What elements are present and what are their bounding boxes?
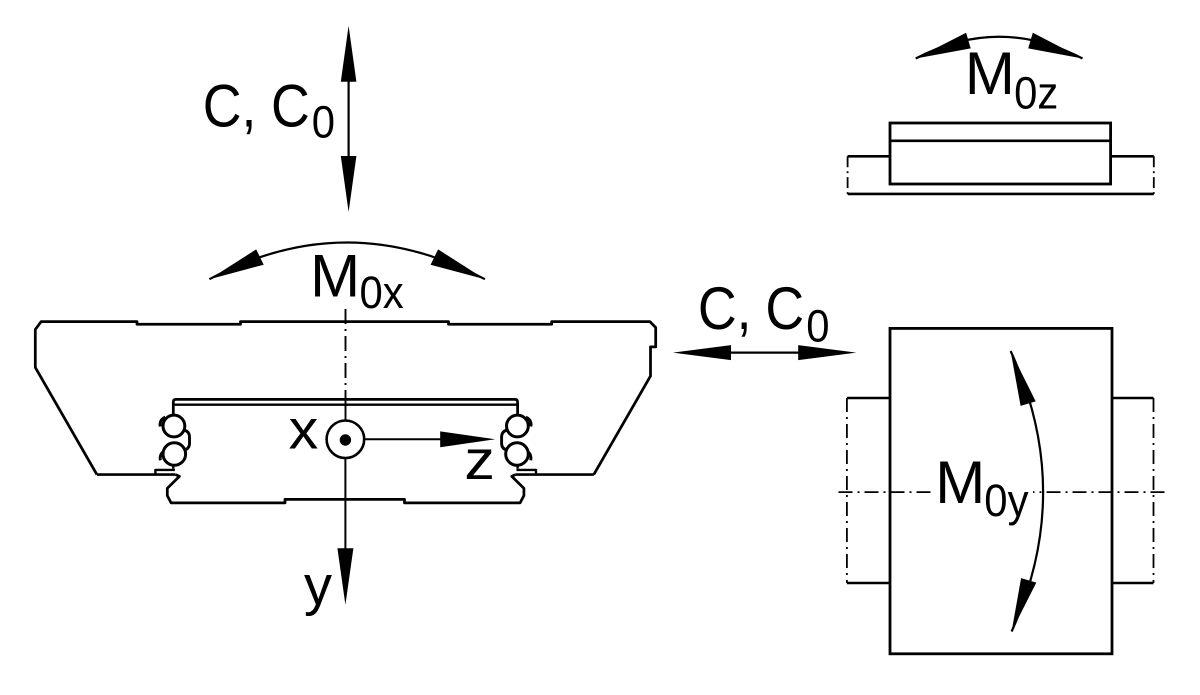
top view carriage block — [890, 328, 1112, 653]
M0z left arrowhead — [916, 33, 971, 59]
moment arc M0y — [1011, 351, 1044, 632]
moment arc M0z — [916, 37, 1083, 59]
top view center line horizontal (dash-dot) — [839, 491, 1166, 493]
M0y bottom arrowhead — [1012, 578, 1037, 631]
svg-text:M: M — [310, 242, 360, 309]
rail top edge — [173, 399, 517, 414]
svg-text:0x: 0x — [360, 269, 404, 319]
svg-text:0: 0 — [312, 98, 335, 148]
svg-text:x: x — [289, 399, 319, 461]
ball right lower — [506, 443, 529, 466]
rail right groove bulge — [502, 429, 510, 450]
svg-text:C,: C, — [698, 275, 752, 342]
svg-text:0y: 0y — [984, 476, 1028, 526]
svg-text:M: M — [935, 449, 985, 516]
side view rail end right (dash-dot) — [1153, 156, 1155, 194]
svg-text:C: C — [765, 275, 804, 342]
svg-text:M: M — [965, 40, 1015, 107]
carriage groove arc left lower — [160, 451, 165, 461]
top view rail right end (dash-dot) — [1153, 398, 1155, 583]
carriage bottom edge left — [97, 473, 176, 476]
M0x right arrowhead — [431, 249, 485, 279]
rail top inner line — [173, 404, 517, 406]
svg-text:C: C — [271, 73, 310, 140]
carriage bottom edge right — [515, 473, 594, 476]
side view rail top right — [1111, 155, 1154, 158]
side view rail end left (dash-dot) — [847, 156, 849, 194]
y axis arrowhead — [337, 548, 353, 605]
M0z right arrowhead — [1028, 33, 1082, 59]
carriage groove arc right upper — [526, 417, 531, 426]
horizontal load arrow C,C0 shaft — [730, 352, 800, 354]
origin dot — [340, 434, 351, 445]
vertical load arrow top arrowhead — [341, 26, 357, 82]
svg-text:0: 0 — [806, 302, 829, 352]
horizontal load arrow right arrowhead — [798, 345, 856, 360]
label background M0y — [933, 458, 1033, 520]
carriage groove arc right lower — [526, 451, 531, 461]
top view rail right band bottom — [1112, 582, 1154, 585]
rail left groove bulge — [182, 429, 190, 450]
moment arc M0x — [209, 243, 485, 280]
svg-text:0z: 0z — [1014, 69, 1058, 119]
ball left upper — [163, 415, 185, 437]
ball left lower — [163, 443, 186, 466]
M0x left arrowhead — [209, 249, 263, 279]
carriage seal lip right — [517, 470, 537, 475]
rail base outline — [167, 475, 524, 503]
top view rail right band top — [1112, 397, 1154, 400]
top view rail left band top — [847, 397, 890, 400]
z axis arrowhead — [440, 431, 495, 447]
top view rail left band bottom — [847, 582, 890, 585]
carriage groove arc left upper — [160, 417, 165, 426]
z axis line — [364, 438, 441, 440]
M0y top arrowhead — [1011, 351, 1036, 406]
main view: carriage outer outline — [35, 322, 655, 475]
side view carriage block — [890, 123, 1111, 184]
vertical load arrow bottom arrowhead — [341, 156, 357, 212]
svg-text:C,: C, — [203, 73, 257, 140]
ball right upper — [507, 415, 529, 437]
vertical load arrow C,C0 shaft — [348, 78, 350, 160]
svg-text:y: y — [304, 553, 332, 616]
horizontal load arrow left arrowhead — [673, 345, 731, 360]
rail edge to lip connector right — [516, 465, 518, 468]
rail edge to lip connector left — [172, 465, 174, 468]
y axis line — [344, 458, 346, 549]
origin circle — [327, 421, 365, 459]
carriage seal lip left — [155, 470, 175, 475]
side view carriage divider line — [890, 140, 1111, 143]
side view rail bottom — [848, 193, 1154, 196]
side view rail top left — [848, 155, 890, 158]
svg-text:z: z — [464, 429, 495, 491]
top view rail left end (dash-dot) — [846, 398, 848, 583]
center line vertical (dash-dot) — [345, 309, 347, 403]
